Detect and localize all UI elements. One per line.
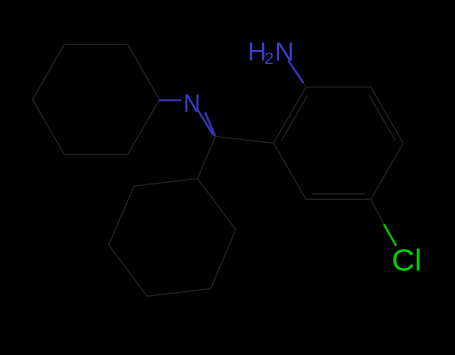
wire: bond left ring to N (blue) (160, 99, 181, 101)
svg-text:Cl: Cl (392, 243, 422, 277)
wire: bond imine C to right ring C1 (216, 137, 274, 144)
right ring inner double bond C5=C6 (313, 193, 365, 195)
wire: bond C5 to Cl, green part (384, 225, 395, 245)
right benzene ring (2-amino-5-chlorophenyl) outline (274, 87, 404, 199)
svg-text:N: N (184, 90, 201, 118)
wire: bond C5 to Cl, grey part (371, 199, 385, 225)
wire: bond imine C to bottom phenyl (198, 137, 216, 179)
right ring inner double bond C1=C2 (282, 95, 308, 140)
bottom phenyl ring (109, 179, 236, 297)
left phenyl ring (33, 45, 160, 155)
wire: bond C2 to NH2, grey part (303, 82, 306, 87)
C=N double bond line 2 (blue, converging) (205, 113, 215, 136)
svg-text:N: N (275, 36, 294, 66)
right ring inner double bond C3=C4 (369, 95, 395, 140)
C=N double bond line 1 (blue) (198, 110, 213, 135)
wire: bond C2 to NH2, blue part (289, 61, 303, 82)
svg-text:2: 2 (264, 49, 273, 68)
